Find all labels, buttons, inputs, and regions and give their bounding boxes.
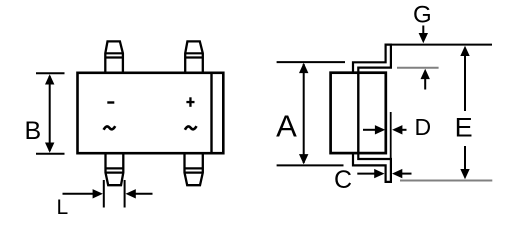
dimension label L xyxy=(57,196,69,219)
dimension A extension line top xyxy=(277,61,345,63)
svg-text:E: E xyxy=(455,113,473,143)
svg-text:A: A xyxy=(276,109,297,144)
dimension A arrow line xyxy=(299,63,308,165)
AC marking tilde left xyxy=(104,126,116,130)
package body (side view) xyxy=(331,73,386,153)
top terminal lead (side view, bent strip) xyxy=(353,45,391,73)
dimension G lower reference line (gray) xyxy=(397,67,439,69)
svg-text:D: D xyxy=(415,114,432,140)
dimension B extension line bottom xyxy=(36,153,65,155)
dimension B extension line top xyxy=(36,72,65,74)
dimension label A xyxy=(276,109,297,144)
dimension C left arrow xyxy=(357,169,384,178)
dimension L extension line right xyxy=(124,180,126,208)
dimension E bottom reference line (gray) xyxy=(400,180,492,182)
dimension label E xyxy=(455,113,473,143)
dimension A extension line bottom xyxy=(277,164,344,166)
dimension D left arrow xyxy=(363,125,385,134)
dimension L extension line left xyxy=(103,180,105,208)
dimension E arrow line xyxy=(460,46,469,180)
dimension C right arrow xyxy=(392,169,412,178)
pin 2 lead (top-right, front view) xyxy=(185,41,203,72)
dimension label B xyxy=(25,117,42,145)
dimension label G xyxy=(413,2,432,29)
dimension G down arrow xyxy=(419,26,428,44)
svg-text:C: C xyxy=(334,166,352,194)
svg-text:L: L xyxy=(57,196,69,219)
dimension L right arrow xyxy=(126,189,153,198)
polarity marking plus xyxy=(186,97,194,107)
terminal plate inner line (side view) xyxy=(357,73,359,153)
dimension label C xyxy=(334,166,352,194)
pin 1 lead (top-left, front view) xyxy=(105,41,123,72)
dimension label D xyxy=(415,114,432,140)
dimension G up arrow xyxy=(421,69,430,90)
bottom terminal lead (side view, bent strip) xyxy=(353,153,391,182)
dimension D right arrow xyxy=(392,125,406,134)
svg-text:B: B xyxy=(25,117,42,145)
body edge strip line (front view) xyxy=(210,72,212,154)
polarity marking minus xyxy=(107,101,114,103)
dimension D extension line xyxy=(390,112,392,159)
svg-text:G: G xyxy=(413,2,432,29)
dimension G top reference line xyxy=(392,44,492,46)
dimension B arrow line xyxy=(45,74,54,153)
pin 4 lead (bottom-right, front view) xyxy=(185,153,203,185)
package body (front view) xyxy=(78,73,224,153)
pin 3 lead (bottom-left, front view) xyxy=(106,153,124,185)
dimension L left arrow xyxy=(63,189,103,198)
AC marking tilde right xyxy=(185,126,197,130)
